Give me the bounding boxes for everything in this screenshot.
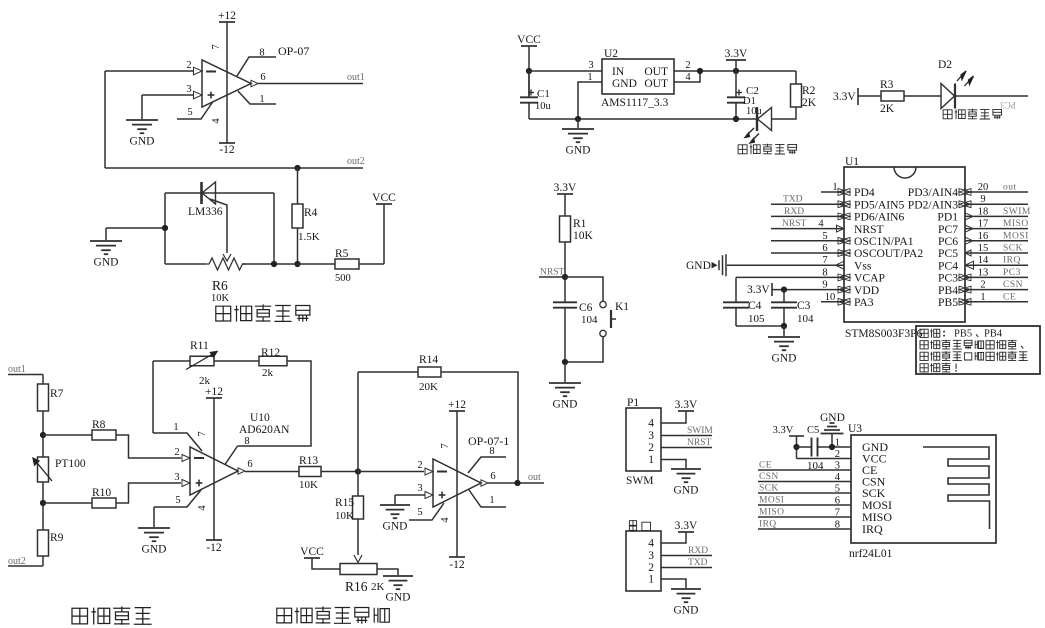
ground GND (LM336) — [105, 228, 107, 240]
title text 恒流源电路 — [216, 306, 231, 321]
junction VDD/C3 — [781, 287, 787, 293]
wire pin7 +12 to op-amp / pin4 to -12 — [226, 22, 228, 143]
R16 wiper arrow head — [354, 555, 362, 563]
ground GND (U1 decoupling) — [783, 326, 785, 336]
svg-text:4: 4 — [648, 418, 654, 430]
title text 放大调理电路 — [277, 608, 292, 623]
note text line3 作为输出口需要外加上 — [920, 352, 928, 360]
svg-text:SCK: SCK — [1003, 244, 1023, 254]
wire U3 pin2 VCC — [797, 458, 852, 460]
ground GND (U10 pin5) — [153, 507, 155, 527]
svg-text:PC3: PC3 — [1003, 268, 1021, 278]
note text line2 只能配置为开漏状态, — [920, 341, 928, 349]
svg-text:VCAP: VCAP — [854, 272, 885, 285]
resistor R9 — [38, 530, 49, 556]
svg-text:R5: R5 — [335, 248, 349, 260]
svg-text:14: 14 — [978, 255, 989, 266]
junction C2 bottom — [733, 116, 739, 122]
U1 pin 2 wire TXD — [771, 203, 844, 205]
wire R15 to R16 wiper — [357, 519, 359, 555]
text 发光二级管 (D1) — [738, 145, 747, 154]
power 3.3V (regulator output) — [726, 59, 746, 61]
LM336 adjust pin wire — [210, 199, 227, 253]
svg-text:out1: out1 — [8, 364, 26, 375]
pin 5 stub — [177, 102, 213, 120]
svg-text:3.3V: 3.3V — [725, 48, 748, 60]
U1 pin 4 wire NRST — [771, 228, 844, 230]
MCU U1 box — [844, 167, 965, 322]
svg-text:3: 3 — [186, 84, 191, 95]
svg-text:PB5: PB5 — [954, 329, 972, 340]
svg-text:5: 5 — [417, 507, 422, 518]
power VCC (R16) — [304, 557, 320, 559]
svg-text:2K: 2K — [371, 581, 385, 593]
U1 pin 1 wire — [821, 191, 844, 193]
svg-text:PA3: PA3 — [854, 296, 874, 309]
wire pin 1 to GND rail — [578, 82, 602, 119]
wire out — [488, 482, 544, 484]
wire R14 left horiz — [358, 371, 418, 373]
wire R5 to VCC — [359, 263, 384, 265]
U10 pin 3 arrow — [182, 480, 190, 487]
wire LM336 loop right — [273, 193, 275, 264]
U1 right pin 18 wire — [965, 215, 1028, 217]
op-amp U10 triangle — [190, 447, 238, 495]
capacitor C2 — [735, 71, 737, 97]
svg-text:VDD: VDD — [854, 284, 879, 297]
svg-text:7: 7 — [211, 44, 222, 49]
C2 plus sign — [736, 92, 742, 94]
ground GND (op-amp OP-07 pin3) — [126, 119, 158, 121]
OP-07-1 pin 1 stub — [469, 490, 506, 507]
svg-text:PT100: PT100 — [55, 458, 86, 470]
svg-text:3.3V: 3.3V — [554, 182, 577, 194]
svg-text:PC3: PC3 — [1000, 100, 1016, 110]
svg-text:PD1: PD1 — [937, 211, 958, 224]
svg-text:U10: U10 — [250, 412, 270, 424]
P1 pin4 wire to 3.3V — [661, 411, 686, 423]
svg-text:TXD: TXD — [783, 195, 803, 205]
svg-text:500: 500 — [335, 273, 351, 284]
ground GND (reset) — [549, 382, 581, 384]
svg-text:AMS1117_3.3: AMS1117_3.3 — [601, 97, 668, 109]
junction VCC/C1/pin3 — [526, 68, 532, 74]
svg-text:10: 10 — [825, 292, 836, 303]
U1 pin 9 wire VDD — [772, 289, 844, 291]
op-amp OP-07 triangle — [202, 60, 251, 107]
capacitor C4 top wire — [735, 277, 737, 302]
LED D1 emission arrows — [745, 128, 759, 143]
svg-text:7: 7 — [822, 255, 827, 266]
ground GND (P1) — [671, 468, 701, 470]
capacitor C3 top wire — [783, 290, 785, 303]
wire R14 left vertical — [357, 372, 359, 472]
wire R8 left — [43, 434, 92, 436]
svg-text:GND: GND — [130, 136, 155, 148]
resistor R14 — [418, 367, 441, 377]
svg-text:AD620AN: AD620AN — [239, 424, 290, 436]
svg-text:SWIM: SWIM — [1003, 207, 1031, 217]
svg-text:3.3V: 3.3V — [833, 91, 856, 103]
svg-text:1: 1 — [489, 495, 494, 506]
svg-text:NRST: NRST — [854, 223, 884, 236]
svg-text:R4: R4 — [304, 207, 318, 219]
svg-text:4: 4 — [648, 538, 654, 550]
C1 plus sign — [528, 92, 534, 94]
svg-text:3: 3 — [588, 60, 593, 71]
diode LM336 triangle — [202, 182, 216, 204]
svg-text:PB4: PB4 — [984, 329, 1003, 340]
svg-text:5: 5 — [822, 231, 827, 242]
svg-text:GND: GND — [686, 260, 711, 272]
svg-text:3: 3 — [648, 550, 654, 562]
svg-text:IRQ: IRQ — [862, 522, 883, 536]
svg-text:PC3: PC3 — [938, 272, 958, 285]
svg-text:1.5K: 1.5K — [298, 231, 320, 243]
LED D1 cathode bar — [756, 107, 758, 131]
svg-text:9: 9 — [822, 280, 827, 291]
power +12 (U10) — [206, 397, 222, 399]
串口 pin3 wire RXD — [661, 555, 712, 557]
wire pin3 to GND — [395, 494, 425, 496]
U10 pin7/pin4 vertical — [213, 398, 215, 540]
svg-text:2: 2 — [685, 60, 690, 71]
svg-text:Vss: Vss — [854, 259, 872, 272]
svg-text:3: 3 — [174, 472, 179, 483]
note text line4 拉电阻！ — [920, 364, 928, 372]
note box — [916, 326, 1040, 374]
thermistor PT100 box — [38, 457, 49, 482]
junction out/R14 — [514, 480, 520, 486]
wire R8 to U10 pin2 — [116, 435, 181, 458]
svg-text:GND: GND — [612, 78, 637, 90]
wire out1 — [258, 83, 363, 85]
svg-text:VCC: VCC — [372, 192, 396, 204]
svg-text:3.3V: 3.3V — [675, 399, 698, 411]
wire R7 bottom — [42, 411, 44, 457]
switch K1 top contact — [600, 301, 606, 307]
svg-text:R15: R15 — [335, 497, 354, 509]
svg-text:10K: 10K — [573, 230, 594, 242]
svg-text:PC6: PC6 — [938, 235, 958, 248]
wire R2 top — [795, 71, 797, 84]
svg-text:CE: CE — [759, 461, 772, 471]
svg-text:U2: U2 — [604, 48, 618, 60]
U10 pin 1 wire — [153, 433, 202, 451]
ground symbol inverted (U3) — [830, 422, 835, 424]
potentiometer R16 box — [340, 564, 377, 575]
svg-text:SWIM: SWIM — [687, 426, 713, 436]
U1 right pin 13 wire — [965, 276, 1028, 278]
OP-07-1 minus marker — [437, 471, 447, 473]
op-amp minus input marker — [206, 71, 216, 73]
wire U10 out to R13 — [245, 471, 299, 473]
wire R3 to D2 — [904, 95, 941, 97]
wire U3 pin1 GND — [832, 446, 851, 448]
svg-text:GND: GND — [94, 257, 119, 269]
wire feedback loop left vertical — [152, 361, 154, 433]
wire loop top right + right vertical — [238, 361, 312, 446]
OP-07-1 pin 8 stub — [468, 457, 506, 473]
wire bottom rail left — [165, 263, 205, 265]
diode LM336 cathode bar — [200, 182, 203, 204]
wire VCC down — [528, 46, 530, 97]
wire R10 to U10 pin3 — [116, 483, 181, 503]
op-amp OP-07-1 triangle — [433, 459, 481, 507]
svg-text:+12: +12 — [205, 386, 223, 398]
svg-text:CSN: CSN — [1003, 280, 1023, 290]
svg-text:PC7: PC7 — [938, 223, 958, 236]
svg-text:R8: R8 — [92, 419, 106, 431]
capacitor C6 — [564, 277, 566, 302]
wire feedback vertical — [104, 71, 106, 168]
capacitor C5 — [811, 438, 813, 457]
wire out1 — [8, 374, 43, 376]
svg-text:4: 4 — [211, 118, 222, 124]
svg-text:16: 16 — [978, 231, 989, 242]
svg-text:OP-07-1: OP-07-1 — [468, 434, 509, 448]
junction R4 bottom — [294, 261, 300, 267]
svg-text:out2: out2 — [8, 556, 26, 567]
junction GND/C5 — [829, 444, 835, 450]
svg-text:1: 1 — [832, 182, 837, 193]
wire D2 output — [955, 95, 1028, 97]
resistor R2 — [791, 84, 802, 107]
wire C4 bottom to C3 bottom — [736, 325, 784, 327]
svg-text:U1: U1 — [845, 156, 859, 168]
ground GND (regulator) — [577, 119, 579, 128]
svg-text:1: 1 — [259, 94, 264, 105]
svg-text:IRQ: IRQ — [1003, 256, 1021, 266]
svg-text:GND: GND — [772, 353, 797, 365]
svg-text:+12: +12 — [218, 10, 236, 22]
U10 plus marker — [196, 482, 203, 484]
svg-text:R3: R3 — [880, 79, 894, 91]
svg-text:OUT: OUT — [644, 66, 668, 78]
svg-text:K1: K1 — [615, 301, 629, 313]
svg-text:GND: GND — [566, 145, 591, 157]
ground GND (R16) — [383, 575, 413, 577]
OP-07-1 pin7/pin4 vertical — [456, 411, 458, 557]
svg-text:1: 1 — [648, 574, 654, 586]
svg-text:PD2/AIN3: PD2/AIN3 — [908, 198, 958, 211]
LM336 adjust arrow head — [223, 254, 231, 261]
svg-text:D2: D2 — [938, 59, 952, 71]
wire bottom rail mid — [242, 263, 298, 265]
svg-text:8: 8 — [244, 436, 249, 447]
wire R5 left — [298, 263, 336, 265]
svg-text:2k: 2k — [262, 367, 274, 379]
svg-text:OSC1N/PA1: OSC1N/PA1 — [854, 235, 914, 248]
switch K1 actuator bar — [610, 310, 612, 328]
junction 3.3V/C5 — [793, 444, 799, 450]
wire 3.3V to C5 — [797, 446, 812, 448]
svg-text:3.3V: 3.3V — [773, 425, 794, 436]
svg-text:8: 8 — [259, 48, 264, 59]
pin 2 input arrow — [194, 67, 203, 75]
svg-text:RXD: RXD — [784, 207, 804, 217]
wire pin2 (OP-07-1) — [358, 471, 424, 473]
U1 pin 3 wire RXD — [771, 215, 844, 217]
U1 pin 8 wire VCAP — [736, 276, 844, 278]
svg-text:13: 13 — [978, 267, 989, 278]
svg-text:3: 3 — [648, 430, 654, 442]
svg-text:GND: GND — [383, 521, 408, 533]
wire R16 right to GND — [377, 569, 398, 575]
svg-text:GND: GND — [674, 605, 699, 617]
svg-text:6: 6 — [247, 459, 252, 470]
svg-text:out1: out1 — [347, 72, 365, 83]
U3 net wire SCK — [758, 492, 851, 494]
junction pin4/pin2 — [697, 68, 703, 74]
wire R4 bottom — [297, 228, 299, 264]
LED D2 cathode bar — [954, 84, 956, 109]
wire LM336 loop top — [165, 192, 274, 194]
svg-text:C5: C5 — [807, 425, 819, 436]
svg-text:2: 2 — [980, 280, 985, 291]
connector 串口 box — [626, 531, 661, 591]
svg-text:NRST: NRST — [687, 438, 711, 448]
svg-text:R9: R9 — [50, 532, 64, 544]
wire GND to loop — [106, 227, 165, 229]
svg-text:20K: 20K — [419, 381, 438, 393]
svg-text:R12: R12 — [261, 347, 280, 359]
power VCC (current source) — [376, 203, 392, 205]
wire junction to R15 — [357, 472, 359, 497]
wire VCC to R16 — [312, 558, 340, 569]
U3 net wire CE — [758, 469, 851, 471]
svg-text:VCC: VCC — [300, 546, 324, 558]
U10 pin 8 diagonal — [225, 446, 238, 465]
svg-text:2: 2 — [417, 460, 422, 471]
svg-text:P1: P1 — [627, 397, 639, 409]
junction C3 bottom — [781, 323, 787, 329]
svg-text:6: 6 — [822, 243, 827, 254]
wire D1 to R2 — [772, 107, 797, 119]
capacitor C4 — [723, 301, 749, 303]
svg-text:PB5: PB5 — [938, 296, 958, 309]
LED D2 triangle — [941, 84, 955, 109]
resistor R3 — [881, 91, 904, 101]
svg-text:18: 18 — [978, 206, 989, 217]
svg-text:1: 1 — [173, 422, 178, 433]
wire out2 — [105, 167, 363, 169]
svg-text:6: 6 — [490, 471, 495, 482]
svg-text:-12: -12 — [449, 559, 465, 571]
power VCC (regulator input) — [521, 45, 537, 47]
svg-text:8: 8 — [822, 267, 827, 278]
wire NRST to K1 — [565, 277, 603, 301]
U10 minus marker — [194, 457, 204, 459]
svg-text:10K: 10K — [211, 293, 230, 304]
svg-text:-12: -12 — [206, 542, 222, 554]
svg-text:STM8S003F3P6: STM8S003F3P6 — [845, 328, 923, 340]
wire pin 4 out — [674, 71, 700, 82]
junction C6/K1 bottom — [562, 359, 568, 365]
wire R10 left — [43, 502, 92, 504]
svg-text:4: 4 — [685, 72, 691, 83]
capacitor C3 — [771, 301, 797, 303]
svg-text:C4: C4 — [748, 300, 762, 312]
svg-text:R7: R7 — [50, 388, 64, 400]
pin 8 stub — [237, 57, 276, 76]
wire R1 to NRST node — [564, 242, 566, 277]
svg-text:MOSI: MOSI — [759, 496, 784, 506]
junction out2/R4 — [294, 165, 300, 171]
power 3.3V (P1) — [678, 410, 694, 412]
pin 1 stub — [238, 91, 276, 104]
svg-text:10u: 10u — [535, 101, 552, 112]
svg-text:+12: +12 — [448, 399, 466, 411]
串口 pin2 wire TXD — [661, 567, 712, 569]
U1 pin 10 wire — [821, 301, 844, 303]
svg-text:PC4: PC4 — [938, 259, 958, 272]
svg-text:out: out — [1003, 183, 1017, 193]
svg-text:VCC: VCC — [517, 34, 541, 46]
svg-text:C6: C6 — [579, 302, 593, 314]
svg-text:1: 1 — [648, 454, 654, 466]
wire R14 right — [441, 372, 518, 483]
R11 arrow — [186, 352, 217, 370]
svg-text:IN: IN — [612, 66, 625, 78]
U10 pin 2 arrow — [182, 455, 190, 462]
resistor R10 — [92, 498, 116, 508]
power -12 (U10) — [206, 539, 222, 541]
ground GND (串口) — [671, 588, 701, 590]
connector 串口 label — [629, 520, 636, 532]
junction GND wire — [162, 225, 168, 231]
U3 net wire MISO — [758, 516, 851, 518]
svg-text:TXD: TXD — [688, 558, 708, 568]
svg-text:15: 15 — [978, 243, 989, 254]
svg-text:104: 104 — [797, 313, 814, 325]
svg-text:PD3/AIN4: PD3/AIN4 — [908, 186, 958, 199]
svg-text:GND: GND — [386, 592, 411, 604]
wire 3.3V to R1 — [564, 194, 566, 216]
U1 right pin 20 wire — [965, 191, 1028, 193]
wire C5 to GND node — [818, 446, 833, 448]
svg-text:PD5/AIN5: PD5/AIN5 — [854, 198, 904, 211]
svg-text:3.3V: 3.3V — [675, 520, 698, 532]
svg-text:10u: 10u — [746, 106, 763, 117]
wire R9 to out2 — [42, 556, 44, 566]
U1 pin 5 wire — [771, 240, 844, 242]
U3 net wire CSN — [758, 481, 851, 483]
U1 pin 6 wire — [771, 252, 844, 254]
pin 6 output arrow — [251, 80, 258, 86]
U10 pin 6 output arrow — [238, 468, 245, 474]
串口 pin1 wire to GND — [661, 579, 686, 588]
svg-text:2K: 2K — [880, 103, 895, 115]
wire R4 top — [297, 168, 299, 204]
svg-text:2: 2 — [174, 447, 179, 458]
wire PT100 bottom — [42, 482, 44, 530]
power 3.3V (reset) — [557, 193, 573, 195]
power -12 (OP-07-1) — [449, 556, 465, 558]
junction loop right/bottom — [271, 261, 277, 267]
svg-text:-12: -12 — [219, 144, 235, 156]
U1 box notch — [894, 167, 916, 178]
junction PT100/R10 — [40, 500, 46, 506]
wire K1 bottom to node — [565, 337, 603, 362]
U1 right pin 15 wire — [965, 252, 1028, 254]
wire R13 to junction — [321, 471, 358, 473]
op-amp plus input marker — [208, 94, 215, 96]
switch K1 bottom contact — [600, 330, 606, 336]
resistor R12 — [259, 356, 287, 366]
wire LM336 loop left — [164, 193, 166, 264]
U1 pin 7 wire Vss — [727, 264, 844, 266]
